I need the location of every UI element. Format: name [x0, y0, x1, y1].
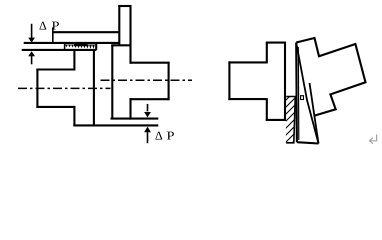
left hub left edge [36, 69, 38, 108]
contact face line vertical [295, 43, 298, 143]
left flange bottom + extension line [73, 124, 158, 126]
paragraph return mark [370, 135, 377, 144]
tilted flange bottom edge [297, 142, 319, 143]
left hub bottom [36, 106, 74, 108]
straightedge top edge [52, 31, 119, 33]
tilted flange right edge lower [310, 83, 319, 144]
wedge gauge hatching [282, 88, 298, 153]
right hub top [130, 62, 170, 64]
centerline left shaft axis [18, 87, 111, 89]
wedge gauge outline [286, 97, 295, 143]
right flange bottom + extension line [111, 118, 159, 120]
left rim left edge lower [73, 106, 75, 127]
bottom dimension arrow down [144, 104, 151, 118]
right-fig flange left edge upper [266, 43, 268, 64]
dimension arrow up (top gap) [28, 51, 35, 64]
feeler gauge box left cap [64, 43, 66, 50]
right-fig left hub top [228, 61, 266, 63]
leader line under P [52, 28, 54, 44]
rim surface extension (line2) [22, 49, 97, 51]
small gap box [301, 96, 304, 100]
svg-text:Δ: Δ [155, 129, 163, 143]
raised ring right edge V2 upper [129, 5, 131, 64]
svg-text:Δ: Δ [39, 19, 47, 33]
raised ring left edge V1 [118, 5, 120, 45]
bottom dimension arrow up [144, 127, 151, 144]
straightedge bottom edge (line1) [24, 42, 120, 44]
feeler gauge box right cap [95, 43, 97, 50]
right flange face [111, 45, 113, 118]
centerline right shaft axis [101, 79, 193, 81]
feeler gauge mid solid band [74, 44, 88, 46]
right-fig left hub bottom [228, 98, 266, 100]
right-fig flange left edge lower [266, 98, 268, 121]
tilted coupling outline [296, 38, 365, 116]
tilted face diagonal A to F [296, 43, 318, 144]
dimension arrow down (top gap) [28, 24, 35, 43]
svg-text:P: P [167, 129, 175, 143]
left hub top [36, 68, 74, 70]
right hub bottom [130, 98, 170, 100]
right flange top [111, 44, 130, 46]
right hub right edge [168, 62, 170, 100]
feeler gauge serration [65, 45, 95, 49]
right-fig flange face [284, 42, 286, 121]
left rim left edge upper [73, 51, 75, 71]
right-fig flange bottom [266, 119, 286, 121]
raised ring top cap [118, 5, 131, 7]
contact face inner line [297, 47, 300, 140]
right-fig left hub left edge [228, 61, 230, 100]
raised ring right edge V2 lower [129, 98, 131, 119]
left flange face [93, 51, 95, 126]
right-fig flange top [266, 42, 286, 44]
